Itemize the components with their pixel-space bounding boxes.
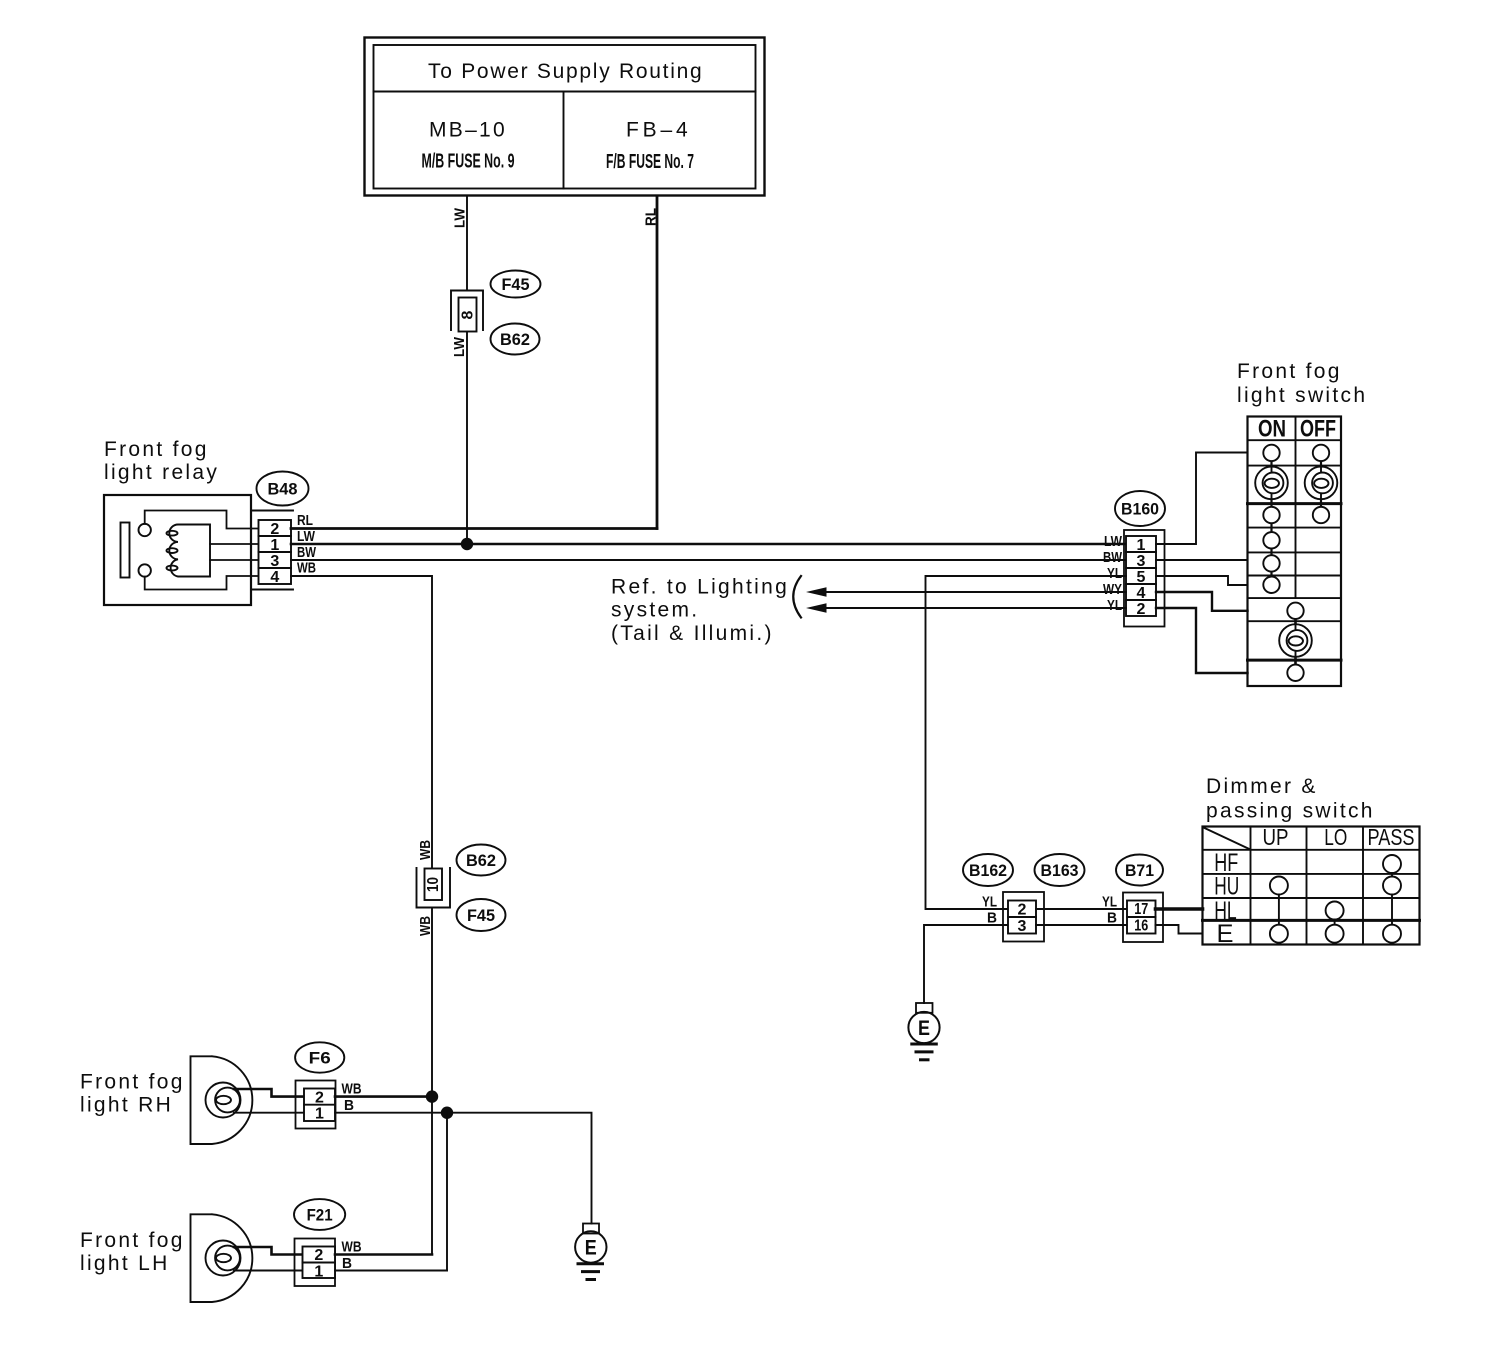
- wire YL B71 pin 17 to dimmer switch: [1156, 907, 1203, 911]
- wire code labels at B160: [1103, 533, 1123, 614]
- svg-text:MB–10: MB–10: [429, 119, 507, 142]
- svg-text:E: E: [585, 1237, 597, 1260]
- connector B160 outer shell: [1124, 530, 1165, 627]
- svg-text:BW: BW: [297, 544, 317, 561]
- wires lamp RH to connector F6: [234, 1089, 304, 1113]
- wire B from B162 pin 3 to ground: [924, 925, 1008, 1003]
- wire code labels at B162: [982, 894, 997, 927]
- front fog light LH lamp: [191, 1214, 253, 1302]
- svg-text:OFF: OFF: [1300, 416, 1336, 443]
- brace paren: [793, 576, 801, 618]
- svg-text:YL: YL: [1107, 565, 1122, 582]
- svg-text:1: 1: [314, 1263, 323, 1280]
- junction LW: [461, 538, 473, 550]
- connector tag B163: [1035, 854, 1085, 886]
- svg-text:B163: B163: [1041, 861, 1079, 880]
- connector tag F45: [491, 271, 541, 298]
- front fog light switch label: [1237, 360, 1367, 407]
- svg-text:WB: WB: [417, 916, 434, 936]
- svg-text:1: 1: [1137, 537, 1146, 554]
- svg-text:B48: B48: [268, 480, 298, 499]
- svg-text:YL: YL: [982, 894, 997, 911]
- in-line connector B62/F45 pin 10: [417, 840, 451, 936]
- wire B160 pin 3 to switch: [1156, 559, 1248, 561]
- switch illumination bulb ON: [1255, 467, 1288, 500]
- svg-text:B162: B162: [969, 861, 1007, 880]
- svg-text:3: 3: [1137, 553, 1146, 570]
- wires lamp LH to connector F21: [234, 1247, 303, 1271]
- svg-text:B71: B71: [1125, 861, 1154, 880]
- svg-text:F45: F45: [467, 906, 495, 925]
- dimmer & passing switch table: [1203, 824, 1420, 948]
- svg-text:RL: RL: [297, 512, 313, 529]
- wire B71 pin 16 to dimmer switch: [1156, 925, 1203, 934]
- svg-text:ON: ON: [1258, 416, 1286, 443]
- wire YL B160 pin 5 down to B162: [926, 576, 1127, 909]
- wire B160 pin 1 to switch: [1156, 453, 1248, 545]
- svg-text:E: E: [918, 1017, 930, 1040]
- dimmer chain PASS column: [1391, 864, 1393, 934]
- svg-text:light LH: light LH: [80, 1252, 170, 1275]
- front fog light LH label: [80, 1229, 185, 1275]
- svg-text:BW: BW: [1103, 549, 1123, 566]
- svg-text:WB: WB: [417, 840, 434, 860]
- ground E (fog lights): [575, 1224, 606, 1280]
- svg-text:light relay: light relay: [104, 461, 219, 484]
- connector tag B62 (lower): [457, 845, 506, 876]
- svg-text:3: 3: [1018, 918, 1027, 935]
- svg-text:F45: F45: [502, 275, 530, 294]
- dimmer chain LO column: [1334, 911, 1336, 934]
- wire LW relay pin 1 to B160 pin 1: [291, 543, 1126, 546]
- connector tag B160: [1115, 491, 1165, 526]
- svg-text:WB: WB: [342, 1239, 362, 1256]
- wire YL B160 pin 2 to lighting system: [806, 603, 1126, 612]
- svg-text:LW: LW: [451, 336, 468, 357]
- svg-text:B: B: [1107, 910, 1117, 927]
- svg-text:LW: LW: [1104, 533, 1123, 550]
- svg-text:B160: B160: [1121, 500, 1159, 519]
- wire WB from F6 pin 2: [335, 1081, 432, 1098]
- connector F6 pin box (pins 2,1): [296, 1081, 336, 1129]
- fuse FB-4: [606, 119, 694, 174]
- svg-text:2: 2: [1137, 601, 1146, 618]
- connector tag B48: [257, 472, 309, 506]
- dimmer & passing switch label: [1206, 775, 1375, 823]
- junction B at RH: [441, 1107, 453, 1119]
- connector B160 pin box (pins 1,3,5,4,2): [1126, 536, 1156, 618]
- svg-text:PASS: PASS: [1368, 824, 1415, 850]
- svg-text:4: 4: [1137, 585, 1146, 602]
- svg-text:system.: system.: [611, 599, 699, 622]
- connector F21 pin box (pins 2,1): [295, 1239, 336, 1287]
- connector B162 pin box (pins 2,3): [1003, 892, 1044, 942]
- ref. to lighting system label: [611, 576, 789, 646]
- switch illumination bulb middle: [1279, 624, 1312, 657]
- connector tag B162: [963, 854, 1013, 886]
- connector B71 pin box (pins 17,16): [1123, 893, 1163, 943]
- svg-text:B: B: [987, 910, 997, 927]
- switch contacts middle column: [1287, 603, 1303, 681]
- svg-text:E: E: [1217, 920, 1234, 948]
- dimmer chain UP column: [1278, 886, 1280, 934]
- svg-text:M/B FUSE No. 9: M/B FUSE No. 9: [422, 151, 515, 173]
- svg-text:2: 2: [315, 1089, 324, 1106]
- relay coil: [167, 525, 211, 577]
- svg-text:WB: WB: [342, 1081, 362, 1098]
- svg-text:passing switch: passing switch: [1206, 800, 1375, 823]
- wire RL horizontal to relay pin 2: [291, 527, 657, 530]
- svg-text:17: 17: [1134, 901, 1148, 918]
- connector tag B71: [1116, 855, 1163, 886]
- connector tag F45 (lower): [457, 899, 506, 931]
- svg-text:UP: UP: [1263, 824, 1289, 850]
- switch contacts ON column: [1263, 445, 1279, 593]
- svg-text:light switch: light switch: [1237, 384, 1367, 407]
- connector tag F6: [295, 1042, 344, 1072]
- svg-text:2: 2: [314, 1247, 323, 1264]
- wire B vertical RH to LH: [446, 1113, 448, 1271]
- svg-text:YL: YL: [1102, 894, 1117, 911]
- switch contact chain ON column: [1270, 453, 1272, 585]
- svg-text:2: 2: [270, 521, 279, 538]
- svg-text:LW: LW: [297, 528, 316, 545]
- svg-text:RL: RL: [643, 208, 660, 226]
- svg-text:B: B: [344, 1097, 354, 1114]
- svg-text:F/B FUSE No. 7: F/B FUSE No. 7: [606, 151, 694, 173]
- wire WB relay pin 4 down to fog lights: [291, 576, 432, 1255]
- front fog light RH label: [80, 1071, 185, 1117]
- svg-text:1: 1: [315, 1106, 324, 1123]
- svg-text:4: 4: [270, 569, 279, 586]
- svg-text:To Power Supply Routing: To Power Supply Routing: [428, 60, 704, 83]
- svg-text:(Tail & Illumi.): (Tail & Illumi.): [611, 622, 774, 645]
- svg-text:3: 3: [270, 553, 279, 570]
- wire BW relay pin 3 to B160 pin 3: [291, 559, 1126, 561]
- relay internal wires: [145, 511, 293, 590]
- svg-text:WY: WY: [1103, 581, 1122, 598]
- connector tag F21: [294, 1199, 345, 1230]
- wire B from F21 pin 1: [335, 1255, 447, 1272]
- svg-text:WB: WB: [297, 560, 316, 577]
- svg-text:5: 5: [1137, 569, 1146, 586]
- wire B160 pin 2 to switch: [1156, 608, 1248, 673]
- front fog light relay body: [104, 495, 251, 605]
- power supply routing box: [365, 38, 765, 196]
- svg-text:10: 10: [425, 877, 442, 892]
- wire B B162 pin 3 to B71 pin 16: [1036, 924, 1127, 926]
- switch contacts OFF column: [1313, 445, 1329, 524]
- svg-text:B62: B62: [500, 330, 530, 349]
- wire RL vertical from FB-4: [643, 196, 660, 529]
- svg-text:FB–4: FB–4: [626, 119, 690, 142]
- switch illumination bulb OFF: [1305, 467, 1338, 500]
- front fog light switch table: [1248, 416, 1342, 687]
- junction WB at RH: [426, 1090, 438, 1102]
- ground E (dimmer circuit): [908, 1003, 939, 1060]
- svg-text:1: 1: [270, 537, 279, 554]
- svg-text:LO: LO: [1324, 824, 1347, 850]
- connector B48 pin box (pins 2,1,3,4): [259, 520, 292, 586]
- switch contact chain middle column: [1294, 611, 1297, 673]
- svg-text:YL: YL: [1107, 597, 1122, 614]
- in-line connector F45/B62 pin 8: [451, 291, 483, 358]
- svg-text:16: 16: [1134, 918, 1148, 935]
- svg-text:Ref. to Lighting: Ref. to Lighting: [611, 576, 789, 599]
- svg-text:B62: B62: [466, 851, 496, 870]
- svg-text:B: B: [342, 1255, 352, 1272]
- wire code labels at B48: [297, 512, 317, 577]
- wire B160 pin 5 to switch: [1156, 576, 1248, 585]
- svg-text:F6: F6: [309, 1049, 331, 1068]
- svg-text:Front fog: Front fog: [80, 1071, 185, 1094]
- fuse MB-10: [422, 119, 515, 173]
- front fog light relay label: [104, 438, 219, 484]
- wire code labels at B71: [1102, 894, 1117, 927]
- svg-text:F21: F21: [307, 1206, 333, 1225]
- switch contact chain OFF column: [1320, 453, 1322, 515]
- wire WY B160 pin 4 to lighting system: [806, 587, 1126, 596]
- svg-text:2: 2: [1018, 902, 1027, 919]
- svg-text:8: 8: [460, 310, 477, 319]
- wire LW vertical from MB-10: [452, 196, 469, 544]
- wire YL B162 pin 2 to B71 pin 17: [1036, 908, 1127, 910]
- svg-text:Front fog: Front fog: [1237, 360, 1342, 383]
- dimmer contacts: [1270, 855, 1401, 943]
- svg-text:light RH: light RH: [80, 1094, 173, 1117]
- front fog light RH lamp: [191, 1056, 253, 1144]
- wire WB from F21 pin 2: [335, 1239, 432, 1256]
- connector tag B62: [491, 324, 540, 355]
- svg-text:Front fog: Front fog: [104, 438, 209, 461]
- svg-text:Dimmer &: Dimmer &: [1206, 775, 1318, 798]
- wire B from F6 pin 1 to ground: [335, 1097, 592, 1224]
- svg-text:Front fog: Front fog: [80, 1229, 185, 1252]
- svg-text:LW: LW: [452, 207, 469, 228]
- wire B160 pin 4 to switch: [1156, 592, 1248, 611]
